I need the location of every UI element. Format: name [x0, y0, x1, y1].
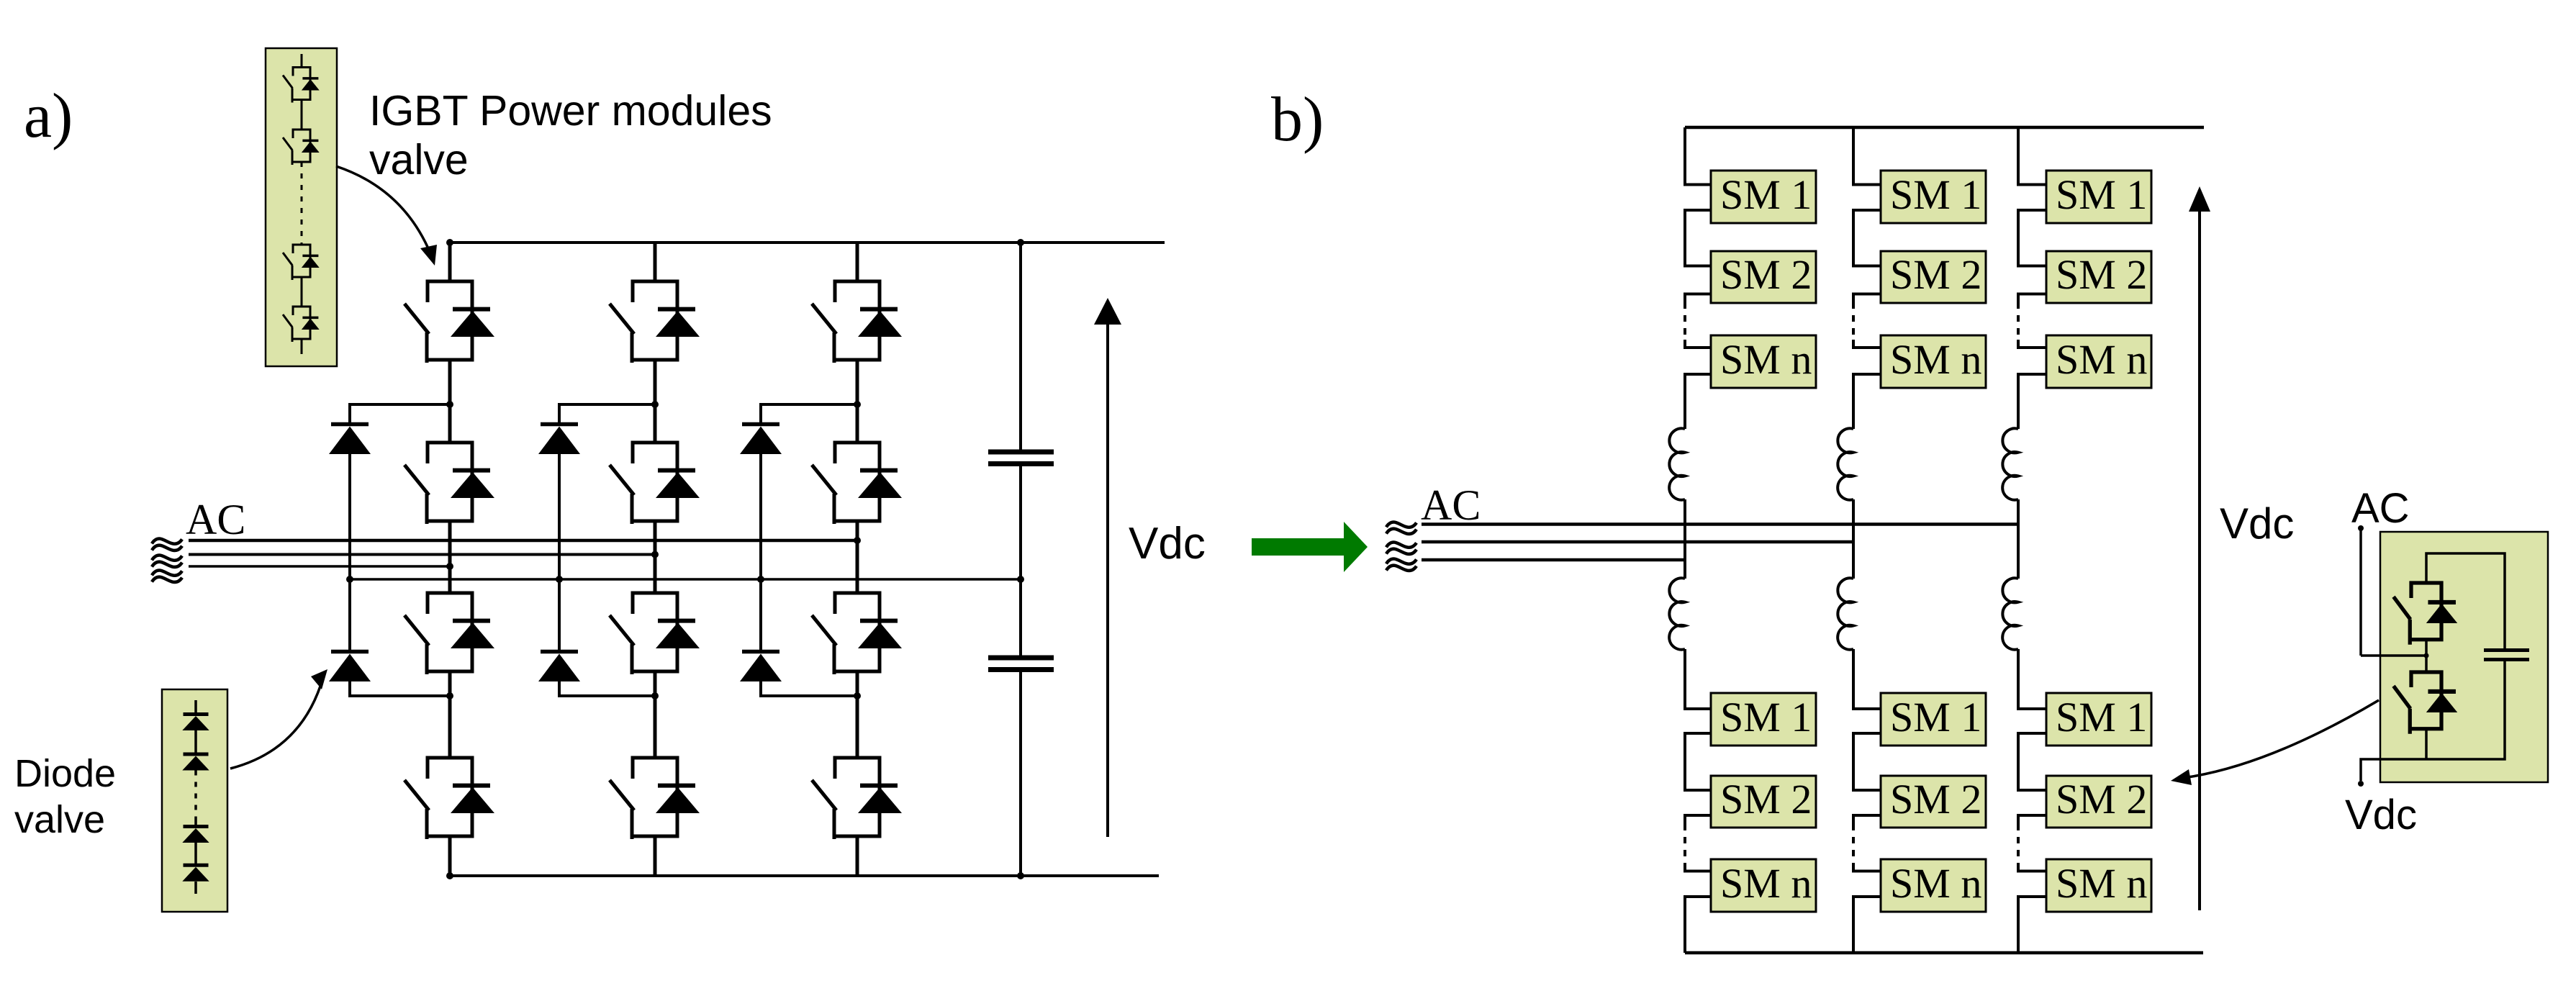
svg-text:SM n: SM n: [1720, 336, 1812, 383]
SM 1 lower leg2: [1881, 693, 1986, 746]
wire: [2425, 640, 2428, 672]
AC phase line 3: [189, 565, 450, 568]
IGBT Q32: [812, 443, 902, 524]
wire: [856, 243, 859, 281]
svg-text:AC: AC: [1421, 481, 1481, 529]
dashed wire: [2017, 302, 2020, 340]
wire: [301, 277, 303, 307]
wire: [2425, 729, 2428, 759]
valve diode 4: [182, 865, 209, 882]
wire: [1685, 897, 1711, 953]
svg-text:SM 2: SM 2: [1890, 776, 1981, 823]
svg-text:SM 1: SM 1: [1890, 171, 1981, 218]
wire: [654, 360, 657, 443]
wire: [654, 243, 657, 281]
clamp diode D31: [740, 425, 782, 455]
svg-text:AC: AC: [186, 496, 245, 543]
wire: [1685, 815, 1711, 824]
wire: [856, 521, 859, 593]
clamp diode D21: [538, 425, 580, 455]
AC phase line b3: [1422, 558, 1685, 562]
wire: [1853, 210, 1881, 266]
svg-text:SM 2: SM 2: [1720, 251, 1812, 298]
wire: [1853, 374, 1881, 429]
arrow from Diode valve to lower clamp diode: [230, 677, 323, 769]
SM n lower leg1: [1711, 859, 1816, 912]
svg-text:SM 2: SM 2: [1720, 776, 1812, 823]
wire: [654, 836, 657, 876]
SM 2 upper leg1: [1711, 251, 1816, 303]
valve diode 3: [182, 827, 209, 843]
wire: [1853, 864, 1881, 871]
inductor arm lower leg2: [1838, 578, 1853, 649]
AC phase line b2: [1422, 540, 1853, 544]
wire: [2018, 649, 2046, 709]
IGBT Q34: [812, 758, 902, 839]
IGBT Q23: [610, 593, 700, 674]
bottom DC bus: [449, 874, 1159, 877]
IGBT valve green box: [266, 48, 337, 366]
AC phase line b1: [1422, 522, 2018, 526]
wire: [1019, 579, 1022, 656]
SM n lower leg3: [2046, 859, 2151, 912]
svg-text:valve: valve: [369, 136, 469, 184]
wire: [1685, 340, 1711, 348]
node AC terminal: [2358, 525, 2364, 531]
svg-text:SM n: SM n: [1890, 336, 1981, 383]
AC wavy symbol b1: [1386, 522, 1416, 533]
dashed wire: [1684, 302, 1686, 340]
wire: [1685, 649, 1711, 709]
svg-text:valve: valve: [14, 798, 105, 841]
IGBT Q14: [405, 758, 494, 839]
AC wavy symbol 1: [152, 538, 182, 550]
node clamp lower leg2: [651, 692, 659, 699]
wire: [759, 454, 762, 650]
dashed wire: [301, 162, 303, 245]
SM 1 upper leg2: [1881, 171, 1986, 223]
valve diode 1: [182, 715, 209, 731]
wire: [448, 671, 452, 758]
node midline clamp1: [346, 576, 353, 583]
node midline clamp2: [556, 576, 563, 583]
submodule IGBT upper: [2394, 583, 2458, 645]
clamp diode D11: [329, 425, 371, 455]
node AC line1 leg3: [854, 537, 861, 544]
node bottom bus leg1: [446, 872, 453, 879]
svg-text:SM n: SM n: [2056, 336, 2147, 383]
wire: [2018, 733, 2046, 790]
inductor arm lower leg3: [2002, 578, 2018, 649]
wire: [448, 243, 452, 281]
submodule capacitor: [2484, 651, 2529, 660]
dashed wire: [1852, 824, 1855, 864]
wire: [1685, 374, 1711, 429]
dashed wire: [2017, 824, 2020, 864]
IGBT Q31: [812, 281, 902, 363]
inductor arm upper leg3: [2002, 428, 2018, 499]
wire: [2018, 210, 2046, 266]
wire: [2018, 815, 2046, 824]
wire: [348, 454, 351, 650]
wire: [856, 836, 859, 876]
IGBT Q12: [405, 443, 494, 524]
wire: [2426, 553, 2505, 648]
green block arrow: [1252, 522, 1368, 572]
wire: [558, 454, 561, 650]
capacitor C2: [988, 658, 1054, 670]
node clamp upper leg1: [446, 401, 453, 408]
node clamp upper leg2: [651, 401, 659, 408]
valve diode 2: [182, 754, 209, 771]
wire: [301, 339, 303, 354]
wire: [2359, 530, 2362, 656]
valve wire: [194, 700, 197, 714]
IGBT Q21: [610, 281, 700, 363]
node clamp lower leg3: [854, 692, 861, 699]
svg-text:SM 1: SM 1: [1720, 694, 1812, 740]
wire: [1853, 733, 1881, 790]
dashed wire: [1684, 824, 1686, 864]
inductor arm upper leg2: [1838, 428, 1853, 499]
wire: [1019, 672, 1022, 876]
AC wavy symbol b2: [1386, 542, 1416, 553]
SM 1 lower leg1: [1711, 693, 1816, 746]
wire: [1853, 294, 1881, 303]
SM 1 upper leg3: [2046, 171, 2151, 223]
wire: [654, 671, 657, 758]
arrow from IGBT valve to top IGBT: [336, 166, 430, 253]
dashed wire: [194, 771, 197, 821]
wire: [1853, 127, 1881, 185]
svg-text:SM n: SM n: [2056, 860, 2147, 907]
DC midpoint line: [350, 578, 1021, 581]
SM 2 lower leg2: [1881, 776, 1986, 828]
wire: [856, 360, 859, 443]
wire: [2018, 374, 2046, 429]
AC phase line 1: [189, 539, 857, 543]
submodule green box: [2380, 532, 2548, 782]
svg-text:Diode: Diode: [14, 752, 116, 795]
svg-text:Vdc: Vdc: [1129, 519, 1206, 568]
node AC line3 leg1: [446, 563, 453, 570]
inductor arm lower leg1: [1669, 578, 1685, 649]
svg-text:SM 2: SM 2: [1890, 251, 1981, 298]
Vdc arrow a: [1106, 323, 1109, 837]
svg-text:SM 2: SM 2: [2056, 776, 2147, 823]
wire: [194, 820, 197, 827]
clamp branch leg2: wire: [559, 404, 655, 422]
wire: [448, 836, 452, 876]
wire: [194, 843, 197, 865]
node midline clamp3: [757, 576, 764, 583]
valve internal wire top: [301, 54, 303, 68]
svg-text:SM 1: SM 1: [1890, 694, 1981, 740]
IGBT Q13: [405, 593, 494, 674]
node cap midpoint: [1017, 576, 1024, 583]
wire: [1019, 466, 1022, 579]
wire: [654, 521, 657, 593]
SM 1 upper leg1: [1711, 171, 1816, 223]
wire: [2018, 864, 2046, 871]
wire: [1853, 649, 1881, 709]
svg-text:SM n: SM n: [1720, 860, 1812, 907]
wire: [194, 882, 197, 894]
svg-text:SM 1: SM 1: [2056, 694, 2147, 740]
inductor arm upper leg1: [1669, 428, 1685, 499]
node submodule mid: [2424, 653, 2429, 658]
SM n lower leg2: [1881, 859, 1986, 912]
submodule IGBT lower: [2394, 672, 2458, 734]
wire: [350, 680, 450, 696]
SM n upper leg2: [1881, 335, 1986, 388]
valve IGBT 2: [283, 130, 320, 165]
wire: [2361, 654, 2426, 657]
top DC bus b: [1685, 126, 2204, 130]
top DC bus: [448, 241, 1165, 244]
svg-text:b): b): [1271, 85, 1324, 155]
wire: [2018, 294, 2046, 303]
node bottom bus capacitor: [1017, 872, 1024, 879]
wire: [1685, 210, 1711, 266]
wire: [2361, 661, 2505, 781]
SM 1 lower leg3: [2046, 693, 2151, 746]
svg-text:Vdc: Vdc: [2220, 499, 2294, 548]
wire: [559, 680, 655, 696]
svg-text:a): a): [24, 81, 73, 151]
wire: [301, 100, 303, 130]
SM n upper leg1: [1711, 335, 1816, 388]
SM 2 lower leg3: [2046, 776, 2151, 828]
node top bus leg1: [446, 239, 453, 246]
capacitor column wire: [1019, 243, 1022, 450]
IGBT Q11: [405, 281, 494, 363]
arrow submodule to SM2: [2188, 700, 2379, 777]
wire: [448, 521, 452, 593]
clamp diode D32: [740, 652, 782, 682]
wire: [2018, 127, 2046, 185]
svg-text:SM 1: SM 1: [1720, 171, 1812, 218]
svg-text:AC: AC: [2351, 485, 2410, 532]
wire: [1853, 815, 1881, 824]
wire: [1852, 499, 1855, 579]
wire: [761, 680, 857, 696]
bottom DC bus b: [1685, 951, 2203, 955]
wire: [1685, 127, 1711, 185]
svg-text:IGBT Power modules: IGBT Power modules: [369, 87, 772, 135]
SM 2 lower leg1: [1711, 776, 1816, 828]
dashed wire: [1852, 302, 1855, 340]
wire: [194, 730, 197, 754]
valve IGBT 4: [283, 307, 320, 342]
node AC line2 leg2: [651, 551, 659, 558]
clamp branch leg1: wire: [350, 404, 450, 422]
svg-text:Vdc: Vdc: [2345, 792, 2417, 838]
wire: [1685, 733, 1711, 790]
IGBT Q22: [610, 443, 700, 524]
svg-text:SM 2: SM 2: [2056, 251, 2147, 298]
SM 2 upper leg2: [1881, 251, 1986, 303]
wire: [2017, 499, 2020, 579]
valve IGBT 1: [283, 68, 320, 103]
valve IGBT 3: [283, 245, 320, 280]
IGBT Q33: [812, 593, 902, 674]
AC wavy symbol b3: [1386, 558, 1416, 570]
node clamp lower leg1: [446, 692, 453, 699]
AC phase line 2: [189, 553, 655, 556]
IGBT Q24: [610, 758, 700, 839]
Vdc arrow b: [2198, 210, 2201, 910]
clamp branch leg3: wire: [761, 404, 857, 422]
AC wavy symbol 2: [152, 555, 182, 566]
wire: [1853, 897, 1881, 953]
wire: [1853, 340, 1881, 348]
node Vdc terminal: [2358, 781, 2364, 787]
clamp diode D22: [538, 652, 580, 682]
capacitor C1: [988, 452, 1054, 464]
wire: [1685, 294, 1711, 303]
wire: [448, 360, 452, 443]
Diode valve green box: [162, 689, 227, 912]
node top bus capacitor: [1017, 239, 1024, 246]
wire: [2018, 897, 2046, 953]
wire: [1684, 499, 1686, 579]
wire: [856, 671, 859, 758]
SM n upper leg3: [2046, 335, 2151, 388]
svg-text:SM 1: SM 1: [2056, 171, 2147, 218]
clamp diode D12: [329, 652, 371, 682]
wire: [2018, 340, 2046, 348]
svg-text:SM n: SM n: [1890, 860, 1981, 907]
node clamp upper leg3: [854, 401, 861, 408]
AC wavy symbol 3: [152, 570, 182, 581]
wire: [1685, 864, 1711, 871]
SM 2 upper leg3: [2046, 251, 2151, 303]
